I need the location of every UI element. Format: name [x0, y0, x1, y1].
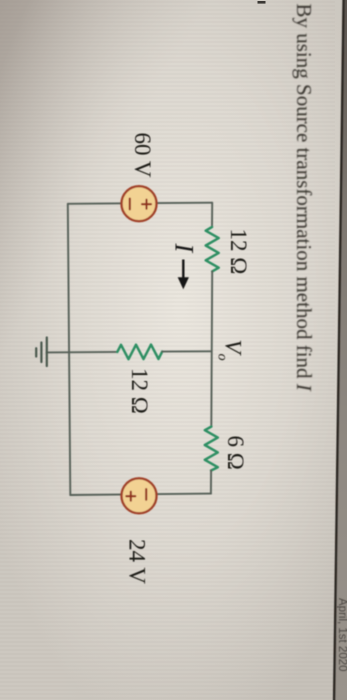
wire right lower [210, 471, 212, 494]
wire middle branch right part [162, 350, 211, 352]
svg-text:April, 1st 2020: April, 1st 2020 [336, 598, 347, 672]
svg-text:12 Ω: 12 Ω [127, 368, 152, 414]
ground bar large [46, 338, 48, 367]
wire right upper [211, 203, 213, 227]
ground bar middle [40, 343, 42, 363]
page border line [334, 0, 344, 700]
current arrow [178, 260, 189, 290]
wire bottom [70, 494, 211, 495]
right margin strip beyond border [334, 0, 347, 700]
voltage source V1 60V [122, 186, 157, 221]
wire left [68, 204, 71, 495]
resistor R1 12 ohm [206, 227, 219, 271]
resistor R2 12 ohm middle [117, 345, 162, 360]
svg-text:6 Ω: 6 Ω [223, 436, 248, 470]
svg-text:12 Ω: 12 Ω [226, 229, 251, 275]
voltage source V2 24V [122, 478, 157, 513]
cropped dash above title [258, 1, 266, 4]
wire top [68, 203, 212, 204]
svg-text:60 V: 60 V [130, 133, 155, 178]
wire right middle [210, 271, 213, 426]
ground bar small [35, 348, 37, 356]
resistor R3 6 ohm [205, 427, 218, 471]
svg-text:24 V: 24 V [125, 539, 150, 584]
wire middle branch [47, 351, 118, 353]
svg-text:By using Source transformation: By using Source transformation method fi… [292, 4, 316, 392]
svg-text:I: I [170, 243, 199, 254]
